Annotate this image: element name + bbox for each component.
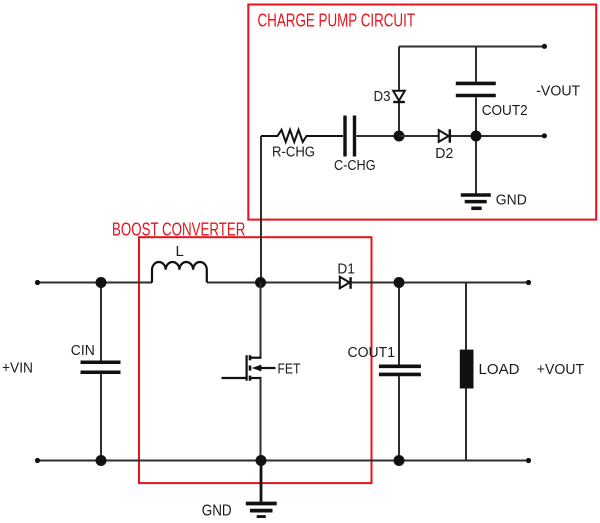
svg-text:CHARGE PUMP CIRCUIT: CHARGE PUMP CIRCUIT — [258, 11, 416, 31]
transistor FET — [222, 283, 276, 461]
svg-text:BOOST CONVERTER: BOOST CONVERTER — [112, 219, 245, 239]
wire CIN branch — [100, 283, 102, 461]
label LOAD — [479, 361, 520, 378]
label CHARGE PUMP CIRCUIT — [258, 11, 416, 31]
label GND (charge pump) — [496, 192, 527, 209]
svg-text:-VOUT: -VOUT — [536, 83, 580, 100]
node bottom rail left endpoint — [35, 458, 40, 463]
capacitor C-CHG — [345, 116, 355, 157]
label COUT1 — [348, 344, 396, 361]
resistor LOAD — [460, 350, 474, 389]
wire COUT2 branch top — [475, 47, 477, 82]
wire charge pump feed (vertical) — [260, 136, 262, 283]
wire COUT2 to ground — [475, 98, 477, 194]
capacitor CIN — [81, 362, 121, 372]
wire COUT1 branch — [398, 283, 400, 461]
node junction CIN top — [96, 277, 107, 288]
svg-text:L: L — [176, 243, 184, 260]
label C-CHG — [334, 157, 376, 174]
node junction COUT1 bottom — [394, 455, 405, 466]
wire LOAD branch — [465, 283, 467, 461]
svg-text:D2: D2 — [435, 145, 453, 162]
svg-text:LOAD: LOAD — [479, 361, 520, 378]
node top rail left endpoint — [35, 280, 40, 285]
svg-text:D1: D1 — [337, 261, 355, 278]
node junction switch — [255, 277, 266, 288]
svg-text:GND: GND — [202, 503, 232, 519]
diode D3 — [393, 91, 405, 102]
wire C-CHG to node — [357, 135, 400, 137]
capacitor COUT2 — [456, 83, 496, 95]
node junction CIN bottom — [96, 455, 107, 466]
svg-text:FET: FET — [278, 361, 301, 378]
wire D3 branch vertical — [398, 47, 400, 137]
svg-text:C-CHG: C-CHG — [334, 157, 376, 174]
charge pump circuit box — [248, 5, 596, 220]
node junction FET source / ground — [256, 455, 267, 466]
svg-text:R-CHG: R-CHG — [272, 144, 315, 161]
svg-text:CIN: CIN — [71, 342, 95, 359]
node junction COUT2/D2 — [471, 131, 482, 142]
wire top rail left segment — [38, 282, 153, 284]
node junction D3/D2 — [394, 131, 405, 142]
node top rail right endpoint — [526, 280, 531, 285]
label D1 — [337, 261, 355, 278]
ground bottom GND — [246, 461, 277, 518]
label D3 — [374, 88, 391, 105]
wire bottom rail — [38, 460, 529, 462]
svg-text:+VOUT: +VOUT — [537, 361, 584, 378]
wire D2 to -VOUT lower endpoint — [451, 135, 545, 137]
label +VIN — [2, 360, 33, 377]
diode D1 — [340, 277, 351, 289]
node -VOUT top endpoint — [542, 44, 547, 49]
label BOOST CONVERTER — [112, 219, 245, 239]
svg-text:D3: D3 — [374, 88, 391, 105]
label CIN — [71, 342, 95, 359]
svg-text:COUT2: COUT2 — [482, 102, 528, 119]
boost converter box — [139, 237, 372, 483]
wire node to D2 — [399, 135, 439, 137]
wire charge pump top rail — [399, 46, 544, 48]
label FET — [278, 361, 301, 378]
wire top rail right segment — [207, 282, 529, 284]
node bottom rail right endpoint — [526, 458, 531, 463]
ground charge pump GND — [461, 195, 491, 208]
inductor L — [152, 262, 207, 283]
resistor R-CHG — [261, 130, 343, 142]
svg-text:GND: GND — [496, 192, 527, 209]
label +VOUT — [537, 361, 584, 378]
node -VOUT lower endpoint — [542, 133, 547, 138]
node junction COUT1 top — [394, 277, 405, 288]
label COUT2 — [482, 102, 528, 119]
svg-text:COUT1: COUT1 — [348, 344, 396, 361]
label D2 — [435, 145, 453, 162]
svg-text:+VIN: +VIN — [2, 360, 33, 377]
label R-CHG — [272, 144, 315, 161]
label L — [176, 243, 184, 260]
capacitor COUT1 — [379, 366, 421, 374]
diode D2 — [439, 129, 450, 142]
label GND (bottom) — [202, 503, 232, 520]
label -VOUT — [536, 83, 580, 100]
